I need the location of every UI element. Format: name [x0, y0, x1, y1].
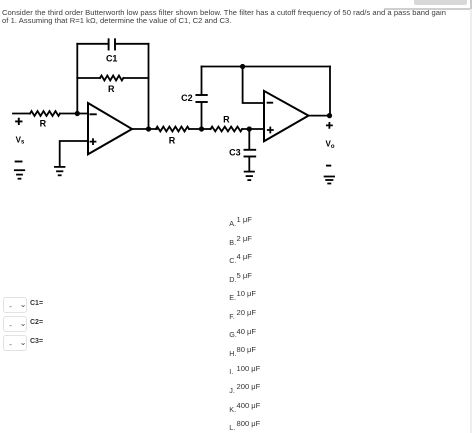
- node B (U1 output junction): [146, 126, 151, 131]
- resistor R (stage 2 series): [156, 127, 189, 132]
- wire: resistor to U2 non-inverting input: [242, 128, 264, 130]
- dropdowns: [3, 297, 27, 313]
- wire: feedback R row right lead: [123, 77, 148, 79]
- wire: branch down to U2 inverting input: [243, 67, 264, 104]
- wire: U2 output: [309, 115, 331, 117]
- label - (source): [16, 161, 22, 163]
- node D (C3 junction): [247, 126, 252, 131]
- svg-text:R: R: [223, 114, 230, 124]
- svg-text:R: R: [169, 135, 176, 145]
- node C (C2 junction): [199, 126, 204, 131]
- ground (source Vs): [15, 170, 24, 179]
- svg-text:C2: C2: [181, 93, 193, 103]
- wire: feedback right vertical: [148, 44, 150, 129]
- resistor R (stage 3 series): [211, 127, 243, 132]
- label + (U1 non-inverting): [91, 139, 96, 144]
- CIRCUIT SVG: [0, 33, 360, 198]
- svg-text:C3: C3: [229, 148, 241, 158]
- wire: top rail C2 to feedback corner: [202, 66, 331, 68]
- resistor R (input series): [30, 111, 60, 116]
- capacitor C1: [109, 39, 115, 49]
- label - (U1 inverting): [90, 113, 95, 115]
- label + (output): [327, 123, 332, 128]
- capacitor C2: [196, 67, 206, 130]
- ground (C3): [245, 172, 254, 181]
- wire: resistor to node A: [60, 113, 88, 115]
- wire: feedback R row left lead: [77, 77, 100, 79]
- wire: top feedback right segment: [116, 43, 149, 45]
- svg-text:Vo: Vo: [325, 140, 334, 150]
- options: [227, 214, 229, 216]
- ground (U1 + input): [55, 167, 65, 175]
- wire: feedback left vertical: [76, 44, 78, 114]
- svg-text:R: R: [108, 84, 115, 94]
- label + (U2 non-inverting): [268, 128, 273, 133]
- label - (U2 inverting): [268, 102, 273, 104]
- op-amp U1: [88, 103, 132, 154]
- resistor R (feedback): [100, 76, 123, 81]
- svg-text:Vs: Vs: [16, 135, 25, 145]
- node E (top rail junction): [240, 64, 245, 69]
- svg-text:R: R: [40, 119, 47, 129]
- svg-text:C1: C1: [106, 54, 118, 64]
- ground (output Vo): [325, 177, 335, 184]
- wire: U1 non-inverting input to ground: [60, 141, 88, 166]
- label + (source): [16, 119, 21, 124]
- wire: resistor to node C: [189, 128, 202, 130]
- wire: node C to resistor: [202, 128, 211, 130]
- wire: U1 output to resistor: [132, 128, 157, 130]
- wire: top feedback left segment: [77, 43, 108, 45]
- wire: feedback vertical to output node: [329, 67, 331, 116]
- label - (output): [327, 165, 330, 167]
- capacitor C3: [245, 129, 256, 172]
- wire: input terminal to resistor: [13, 113, 30, 115]
- node A (inverting input junction): [75, 111, 80, 116]
- node F (output junction): [327, 113, 332, 118]
- op-amp U2: [264, 91, 309, 141]
